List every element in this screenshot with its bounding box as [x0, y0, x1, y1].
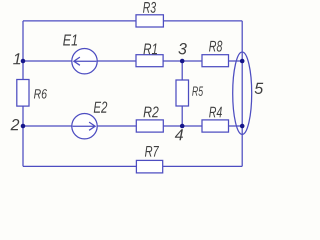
resistor R4: [202, 120, 229, 132]
label R4: [209, 107, 222, 118]
label R8: [209, 41, 222, 52]
node 1 label: [13, 53, 20, 64]
node 3 label: [178, 43, 186, 54]
resistor R7: [136, 160, 162, 173]
node 4 label: [175, 129, 183, 140]
wire top: [23, 20, 242, 22]
node 2 label: [11, 119, 20, 130]
label R1: [143, 44, 157, 55]
node 3 junction: [180, 59, 185, 64]
source E1: [72, 49, 97, 74]
element 5 label: [255, 83, 264, 94]
resistor R6: [17, 80, 29, 107]
source E2 arrow: [73, 122, 96, 130]
label R2: [143, 106, 158, 117]
node 2 junction: [21, 124, 26, 129]
wire row node2-node4-element5: [23, 125, 242, 127]
junction element5 top: [240, 59, 245, 64]
element 5 ellipse: [233, 52, 252, 134]
wire bottom: [23, 165, 242, 167]
label R7: [145, 146, 159, 157]
label R5: [192, 87, 203, 96]
label R3: [143, 2, 156, 13]
resistor R1: [136, 55, 163, 67]
resistor R8: [202, 55, 229, 67]
junction element5 bottom: [240, 124, 245, 129]
label E2: [94, 102, 107, 113]
resistor R5: [176, 80, 189, 106]
resistor R2: [136, 120, 163, 132]
wire row node1-node3-element5: [23, 60, 242, 62]
resistor R3: [136, 15, 163, 27]
node 1 junction: [21, 59, 26, 64]
label E1: [63, 34, 77, 45]
wire left vertical: [22, 21, 24, 167]
node 4 junction: [180, 124, 185, 129]
source E2: [72, 114, 97, 139]
source E1 arrow: [74, 57, 97, 65]
wire branch node3-node4: [181, 61, 183, 126]
label R6: [34, 89, 47, 99]
wire right vertical: [241, 21, 243, 167]
